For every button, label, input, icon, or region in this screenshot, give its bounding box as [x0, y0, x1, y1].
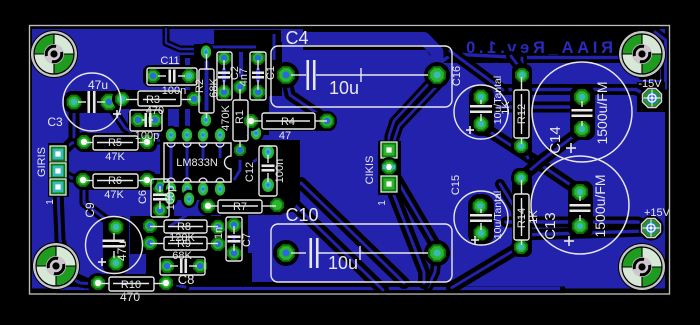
pad C5.2: [145, 110, 165, 130]
value C10 10u: [328, 253, 358, 273]
capacitor C3 plates: [89, 91, 95, 113]
wire RIAA diag to R12: [511, 56, 522, 71]
svg-text:47: 47: [279, 130, 291, 142]
board outline top redraw: [30, 26, 670, 295]
label R10: [121, 279, 141, 291]
svg-text:R5: R5: [108, 137, 122, 149]
node cluster above U1: [162, 30, 282, 137]
capacitor C10 plates: [311, 238, 318, 268]
capacitor C7 outline: [226, 217, 242, 261]
svg-text:100p: 100p: [165, 186, 177, 210]
pad CIKIS 3: [380, 175, 399, 194]
polarity C16: [466, 126, 474, 134]
pad R5.2: [137, 132, 157, 152]
pad GIRIS 1: [49, 145, 68, 164]
fiducial top-left: [30, 30, 78, 78]
wire R7 diag: [277, 206, 383, 290]
svg-text:1K: 1K: [500, 101, 512, 115]
wire C4 to R4: [286, 76, 327, 120]
pad C2.2: [214, 82, 234, 102]
value C15 10u/Tantal: [492, 191, 504, 239]
resistor R9 outline: [150, 237, 218, 250]
capacitor C11 outline: [147, 68, 197, 85]
capacitor C13 plates: [570, 205, 591, 211]
fiducial top-right: [618, 30, 666, 78]
svg-text:C14: C14: [547, 126, 564, 154]
pad C3.2: [99, 92, 119, 112]
wire ground rise to R14: [452, 246, 521, 288]
wire CIKIS2 diag: [390, 168, 438, 250]
svg-text:-15V: -15V: [638, 78, 662, 90]
svg-text:CIKIS: CIKIS: [364, 156, 376, 185]
resistor R14 outline: [514, 180, 529, 245]
svg-text:4n7: 4n7: [238, 68, 250, 86]
net VCC- top clearance zone: [303, 26, 660, 80]
svg-text:C3: C3: [47, 115, 63, 129]
pad C16.1: [471, 87, 491, 107]
pad R14.1: [511, 168, 531, 188]
node C3 clearance: [64, 91, 122, 113]
svg-text:10u: 10u: [328, 253, 358, 273]
pad R7.1: [198, 196, 218, 216]
capacitor C3 outline: [63, 73, 121, 131]
node C8 bus junction: [146, 253, 252, 285]
pad C9.2: [106, 253, 126, 273]
copper text RIAA_Rev.1.0: [466, 39, 613, 57]
svg-text:GIRIS: GIRIS: [36, 147, 48, 177]
wire top diag to -15V rail: [450, 51, 503, 90]
value C9 47u: [115, 241, 129, 261]
pad R10.2: [156, 273, 176, 293]
via U1 top row: [163, 126, 228, 144]
svg-text:C16: C16: [451, 66, 463, 86]
resistor R12 outline: [514, 77, 529, 144]
pad C10.1: [273, 240, 299, 266]
svg-text:1500u/FM: 1500u/FM: [592, 174, 608, 237]
wire C15 branch: [500, 184, 520, 246]
wire R6 to U1: [147, 176, 160, 184]
capacitor C2 outline: [217, 52, 232, 100]
pad R3.1: [112, 89, 132, 109]
wire R10 right to bus: [166, 283, 185, 287]
resistor R6 outline: [83, 174, 147, 188]
wire R5 to U1: [147, 140, 162, 142]
pad GIRIS 3: [49, 178, 68, 197]
pad C11.2: [179, 66, 199, 86]
connector GIRIS label: [36, 147, 48, 177]
node U1 region: [130, 127, 300, 278]
pad C6.2: [150, 200, 170, 220]
value R9 68K: [172, 250, 192, 262]
label R8: [177, 221, 191, 233]
value R1 470K: [220, 104, 232, 130]
wire cluster vertical traces: [168, 34, 274, 135]
capacitor C10 polarity tick: [359, 246, 361, 260]
node GIRIS clearance: [48, 143, 69, 197]
label C10: [285, 205, 318, 225]
svg-text:47u: 47u: [88, 78, 108, 92]
capacitor C1 outline: [250, 52, 266, 100]
via below U1 a: [162, 189, 178, 207]
resistor R3 outline: [126, 91, 191, 106]
node R5 band: [76, 133, 157, 152]
connector CIKIS pin1 label: [377, 200, 388, 206]
pad C8.1: [157, 256, 177, 276]
pad R6.1: [73, 170, 93, 190]
connector GIRIS pin1 label: [45, 199, 56, 205]
capacitor C7 plates: [228, 237, 241, 242]
value C14 1500u/FM: [594, 81, 610, 144]
svg-text:C1: C1: [265, 66, 277, 80]
label R1: [234, 110, 246, 124]
pad R2.1: [198, 43, 214, 61]
value R14 1K: [528, 210, 540, 224]
capacitor C8 plates: [181, 259, 186, 273]
svg-text:47K: 47K: [105, 151, 125, 163]
svg-text:1n: 1n: [213, 227, 225, 239]
capacitor C2 plates: [218, 73, 230, 78]
board outline: [30, 26, 670, 295]
capacitor C1 plates: [252, 73, 264, 78]
label R3: [146, 94, 160, 106]
via right of U1: [248, 124, 264, 142]
wire C12 to ground diag: [268, 183, 404, 283]
pad C13.2: [570, 216, 590, 236]
svg-text:C13: C13: [542, 212, 559, 240]
svg-text:C7: C7: [241, 233, 253, 247]
svg-text:470: 470: [120, 290, 140, 304]
pad GIRIS 2: [49, 162, 68, 181]
node C9 clearance: [103, 216, 129, 274]
pad C6.1: [150, 177, 170, 197]
svg-text:C4: C4: [285, 28, 308, 48]
pad C7.2: [224, 243, 244, 263]
svg-text:R6: R6: [108, 175, 122, 187]
capacitor C14 plates: [572, 110, 593, 116]
connector CIKIS label: [364, 156, 376, 185]
resistor R5 outline: [84, 136, 147, 150]
wire GIRIS1 to R5: [58, 142, 83, 154]
pad C8.2: [190, 256, 210, 276]
node C16 clearance: [469, 85, 494, 136]
node -15V clearance: [637, 82, 665, 112]
value R10 470: [120, 290, 140, 304]
svg-text:R7: R7: [233, 201, 247, 213]
pad CIKIS 1: [380, 141, 399, 160]
node R7 band: [199, 197, 286, 215]
pad R12.2: [511, 136, 531, 156]
svg-text:1500u/FM: 1500u/FM: [594, 81, 610, 144]
svg-text:68K: 68K: [208, 78, 220, 98]
wire C3 to R5: [109, 104, 144, 140]
resistor R10 outline: [98, 277, 166, 291]
pad C1.2: [248, 82, 268, 102]
svg-text:+15V: +15V: [644, 207, 671, 219]
value R4 47: [279, 130, 291, 142]
wire U1 region traces: [150, 140, 268, 265]
pad R7.2: [267, 195, 287, 215]
svg-text:C9: C9: [83, 202, 97, 218]
pad R6.2: [137, 170, 157, 190]
pad C13.1: [570, 182, 590, 202]
node CIKIS clearance: [378, 141, 401, 195]
capacitor C9 outline: [86, 217, 143, 274]
wire R12 feed from top: [517, 58, 527, 73]
svg-text:R1: R1: [234, 110, 246, 124]
power pad +15V: [639, 216, 664, 241]
svg-text:10u: 10u: [329, 78, 359, 98]
pad R3.2: [184, 89, 204, 109]
label C4: [285, 28, 308, 48]
capacitor C15 plates: [470, 215, 492, 221]
pad C9.1: [106, 217, 126, 237]
pad R1.1: [230, 77, 250, 97]
svg-text:1: 1: [377, 200, 388, 206]
label R4: [281, 116, 295, 128]
label R7: [233, 201, 247, 213]
node C13 clearance: [568, 181, 593, 237]
label C16: [451, 66, 463, 86]
label C2: [229, 66, 241, 80]
pad R4.2: [317, 111, 337, 131]
fiducial bottom-left: [32, 242, 80, 290]
value C7 1n: [213, 227, 225, 239]
label R6: [108, 175, 122, 187]
capacitor C12 outline: [259, 146, 277, 196]
wire -15V rail: [504, 90, 650, 98]
label -15V: [638, 78, 662, 90]
capacitor C14 outline: [532, 62, 632, 162]
polarity C15: [471, 236, 479, 244]
label R14: [516, 208, 528, 228]
polarity C9: [98, 258, 106, 266]
node R10 band: [88, 274, 176, 293]
svg-text:470K: 470K: [220, 104, 232, 130]
capacitor C6 outline: [151, 179, 169, 217]
wire +15V rail: [506, 222, 650, 228]
resistor R8 outline: [150, 220, 218, 233]
via below U1 b: [181, 190, 197, 208]
pad C1.1: [248, 48, 268, 68]
label R9: [177, 238, 191, 250]
fiducial bottom-right: [618, 243, 666, 291]
wire top -15V feed: [303, 39, 620, 74]
label R12: [516, 104, 528, 124]
capacitor C16 outline: [454, 85, 508, 139]
capacitor C16 plates: [470, 106, 492, 112]
svg-text:47u: 47u: [115, 241, 129, 261]
svg-text:R2: R2: [194, 79, 206, 93]
capacitor C5 plates: [146, 113, 151, 127]
polarity C3: [113, 110, 121, 118]
value C11 100n: [162, 85, 186, 97]
capacitor C4 plates: [308, 60, 315, 90]
resistor R1 outline: [233, 89, 248, 147]
wire C9 to R10 bus: [114, 268, 140, 284]
label C14: [547, 126, 564, 154]
pad R5.1: [74, 132, 94, 152]
pad C11.1: [143, 66, 163, 86]
wire C4 to CIKIS1: [389, 79, 433, 149]
pad C15.1: [470, 196, 490, 216]
node C12 clearance: [257, 143, 280, 198]
svg-text:10u/Tantal: 10u/Tantal: [492, 76, 504, 124]
value R3 470: [146, 105, 164, 117]
pad C12.2: [259, 175, 276, 194]
resistor R2 outline: [199, 54, 214, 118]
value R8 120K: [169, 232, 195, 244]
polarity C14: [566, 143, 576, 153]
value C4 10u: [329, 78, 359, 98]
copper pour: [32, 29, 665, 289]
capacitor C9 plates: [103, 241, 125, 247]
power pad -15V: [640, 86, 665, 111]
capacitor C10 outline: [271, 224, 452, 282]
svg-text:47K: 47K: [104, 189, 124, 201]
wire R12 to node: [521, 146, 528, 158]
pad R4.1: [241, 111, 261, 131]
value C16 10u/Tantal: [492, 76, 504, 124]
pad C5.1: [128, 110, 148, 130]
svg-text:R9: R9: [177, 238, 191, 250]
capacitor C8 outline: [160, 257, 205, 275]
pad C10.2: [424, 240, 450, 266]
node C15 clearance: [468, 194, 494, 245]
pad C14.2: [572, 119, 592, 139]
capacitor C11 plates: [170, 70, 175, 83]
label C12: [244, 162, 256, 182]
svg-text:R12: R12: [516, 104, 528, 124]
label +15V: [644, 207, 671, 219]
node C11 clearance: [143, 65, 200, 87]
svg-text:R14: R14: [516, 208, 528, 228]
label C8: [178, 272, 195, 287]
svg-text:C15: C15: [450, 175, 462, 195]
wire GIRIS2 to R6: [58, 171, 82, 180]
pad R9.2: [208, 234, 228, 254]
pad C15.2: [471, 223, 491, 243]
capacitor C13 outline: [531, 156, 629, 254]
pad C4.2: [424, 62, 450, 88]
capacitor C15 outline: [454, 191, 508, 245]
pad R8.1: [140, 216, 160, 236]
svg-text:R4: R4: [281, 116, 295, 128]
label R5: [108, 137, 122, 149]
capacitor C4 outline: [271, 46, 452, 107]
via U1 bottom row: [163, 180, 228, 198]
wire top-left elbow: [166, 29, 248, 49]
capacitor C6 plates: [153, 195, 167, 200]
pad C4.1: [273, 62, 299, 88]
pad C16.2: [471, 114, 491, 134]
wire GIRIS3 down: [58, 192, 86, 283]
label C7: [241, 233, 253, 247]
resistor R7 outline: [208, 200, 276, 213]
pad R2.2: [198, 111, 214, 129]
ic U1 outline: [164, 143, 231, 182]
wire bottom ground bus: [56, 282, 565, 294]
pad C7.1: [224, 215, 244, 235]
capacitor C5 outline: [130, 110, 162, 131]
label U1 LM833N: [176, 157, 218, 169]
pad C3.1: [64, 92, 84, 112]
pad R14.2: [511, 237, 531, 257]
wire C10 to ground: [428, 254, 437, 287]
wire CIKIS3 diag: [390, 185, 424, 283]
value C12 100n: [274, 159, 286, 183]
value R6 47K: [104, 189, 124, 201]
node R12 clearance: [512, 64, 532, 156]
capacitor C4 polarity tick: [360, 68, 362, 82]
value C2 4n7: [238, 68, 250, 86]
label C9: [83, 202, 97, 218]
pad R10.1: [88, 273, 108, 293]
svg-text:10u/Tantal: 10u/Tantal: [492, 191, 504, 239]
label C13: [542, 212, 559, 240]
svg-text:C6: C6: [137, 190, 149, 204]
value C13 1500u/FM: [592, 174, 608, 237]
wire C16 to C13: [481, 126, 578, 190]
value C5 100p: [135, 130, 159, 142]
node R6 band: [75, 171, 157, 190]
pad R12.1: [512, 65, 532, 85]
pad R8.2: [208, 217, 228, 237]
svg-text:C11: C11: [160, 55, 179, 67]
pad CIKIS 2: [379, 157, 399, 177]
value C3 47u: [88, 78, 108, 92]
value R5 47K: [105, 151, 125, 163]
svg-text:C8: C8: [178, 272, 195, 287]
label R2: [194, 79, 206, 93]
wire -15V edge riser: [652, 32, 666, 97]
pad C14.1: [572, 87, 592, 107]
node C14 clearance: [570, 86, 595, 140]
wire C4 to CIKIS2: [390, 84, 439, 163]
pad C12.1: [259, 142, 276, 161]
wire C16/C14 rail: [498, 99, 580, 107]
value R12 1K: [500, 101, 512, 115]
label C6: [137, 190, 149, 204]
node C5 clearance: [128, 109, 166, 133]
capacitor C12 plates: [262, 166, 275, 171]
wire +15V rail 2: [520, 231, 646, 235]
label C15: [450, 175, 462, 195]
wire C3 drop: [62, 103, 74, 152]
resistor R4 outline: [251, 113, 327, 129]
node R14 clearance: [512, 168, 532, 257]
pad R1.2: [230, 140, 250, 160]
wire R6 to C9: [84, 186, 112, 224]
polarity C13: [564, 236, 574, 246]
node R3 band: [112, 90, 204, 109]
wire R10 left to bundle: [68, 276, 98, 284]
svg-text:100n: 100n: [274, 159, 286, 183]
label C11: [160, 55, 179, 67]
pad R9.1: [140, 233, 160, 253]
svg-text:LM833N: LM833N: [176, 157, 218, 169]
node R4 band: [242, 112, 336, 131]
wire C14 to R14: [523, 130, 582, 176]
value C6 100p: [165, 186, 177, 210]
svg-text:C12: C12: [244, 162, 256, 182]
svg-text:C10: C10: [285, 205, 318, 225]
label C3: [47, 115, 63, 129]
value R2 68K: [208, 78, 220, 98]
label C1: [265, 66, 277, 80]
pad C2.1: [214, 48, 234, 68]
svg-text:1: 1: [45, 199, 56, 205]
